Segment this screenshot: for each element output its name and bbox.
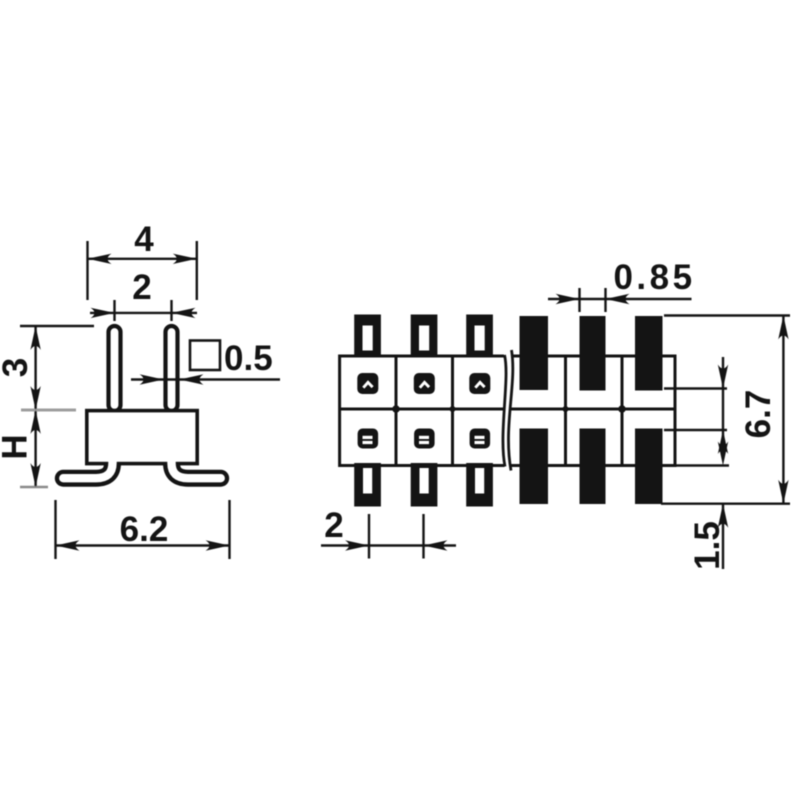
contact square cell2 top (414, 373, 435, 394)
inner gap dim line (722, 357, 724, 453)
black pin 4 top (520, 316, 549, 390)
dim 3/H arrows (30, 326, 40, 350)
inner gap arrows (718, 365, 728, 389)
top pin 1 (outline) (354, 315, 381, 357)
midline junction dots (392, 405, 400, 413)
bottom pin 1 (outline) (354, 463, 381, 507)
body midline (340, 408, 675, 411)
vertical dim line 3 / H (34, 326, 36, 487)
2 pitch arrows (345, 540, 369, 550)
6.7 arrows (778, 316, 788, 340)
black pin 5 bottom (580, 429, 606, 505)
body (right view) (340, 356, 675, 466)
foot right (black strip) (172, 454, 221, 478)
foot left inner white (63, 461, 112, 479)
inner gap extension lines (664, 387, 727, 389)
dim 2 extension lines (113, 300, 115, 321)
6.7 dim line (782, 316, 784, 504)
pin 1 (left view) (109, 326, 121, 411)
dim 2 arrows (outside, pointing inward) (91, 308, 115, 318)
dim 4 extension lines (86, 241, 88, 300)
0.85 arrows (556, 294, 580, 304)
body top level line (gray) (21, 409, 76, 412)
svg-text:4: 4 (134, 220, 154, 259)
2 pitch dim line (321, 544, 456, 546)
contact square cell1 top (357, 373, 378, 394)
svg-text:2: 2 (132, 268, 151, 307)
top extension line (pin top level) (20, 325, 94, 327)
body bottom extension (for 1.5) (675, 464, 729, 466)
dim 6.2 extension lines (54, 500, 56, 559)
dim 2 line (90, 312, 197, 314)
black pin 6 top (635, 316, 663, 391)
cell separator 1 (395, 356, 398, 466)
svg-text:1.5: 1.5 (688, 521, 727, 570)
pin 2 (left view) (166, 326, 178, 411)
cell separator 3 (564, 356, 567, 466)
connector body (left view) (87, 411, 197, 464)
contact square cell1 bottom (358, 429, 379, 449)
contact square cell2 bottom (414, 429, 435, 449)
svg-text:0.85: 0.85 (613, 258, 695, 297)
top pin 3 (outline) (466, 315, 493, 357)
black pin 5 top (580, 316, 606, 391)
contact square cell3 top (469, 373, 490, 394)
square symbol for 0.5 (190, 341, 220, 371)
top pin 2 (outline) (411, 315, 438, 357)
0.85 dim line (548, 298, 692, 300)
svg-text:6.2: 6.2 (120, 510, 169, 549)
dim 6.2 line (56, 544, 230, 546)
bottom pin 2 (outline) (411, 463, 438, 507)
dim 4 arrows (inside, pointing outward) (88, 254, 112, 264)
svg-text:0.5: 0.5 (224, 339, 273, 378)
bottom pin 3 (outline) (466, 463, 493, 507)
dim 4 line (88, 258, 197, 260)
foot left (black strip) (63, 454, 112, 478)
break line left (wavy) (503, 355, 506, 467)
break line right (wavy) (508, 350, 512, 471)
6.7 top extension line (664, 314, 790, 316)
black pin 4 bottom (520, 429, 549, 505)
cell separator 4 (621, 356, 624, 466)
svg-text:2: 2 (324, 506, 343, 545)
1.5 arrows (718, 442, 728, 466)
black pin 6 bottom (635, 429, 663, 505)
0.85 extension lines (578, 288, 580, 312)
6.7/1.5 bottom extension line (661, 503, 790, 505)
svg-text:6.7: 6.7 (739, 390, 778, 439)
2 pitch extension lines (368, 514, 370, 559)
contact square cell3 bottom (470, 429, 491, 449)
foot bottom level line (gray) (20, 486, 48, 489)
1.5 dim line (722, 504, 724, 569)
break gap (white band between break lines) (502, 349, 513, 472)
svg-text:3: 3 (0, 358, 35, 377)
0.5 arrows (140, 374, 164, 384)
svg-text:H: H (0, 434, 35, 459)
dim 6.2 arrows (56, 540, 80, 550)
0.5 leader line (131, 378, 280, 380)
foot right inner white (172, 461, 221, 479)
cell separator 2 (451, 356, 454, 466)
